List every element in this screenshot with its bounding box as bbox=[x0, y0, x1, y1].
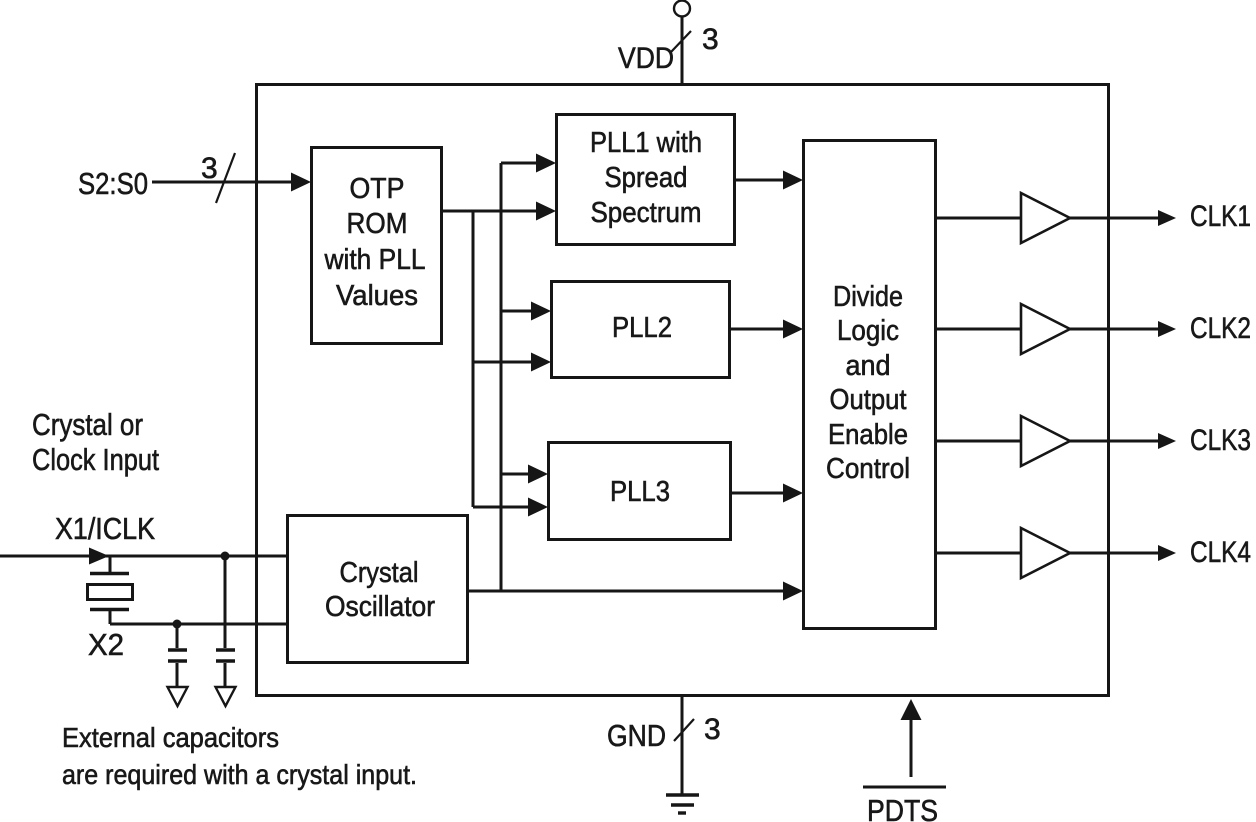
wire branch to PLL2 upper input bbox=[501, 310, 536, 313]
arrowhead PLL1 lower input bbox=[536, 202, 556, 221]
wire branch to PLL3 upper input bbox=[501, 473, 533, 476]
wire buffer 3 to CLK3 bbox=[1070, 440, 1160, 443]
buffer U4 (CLK4) bbox=[1021, 528, 1070, 578]
svg-text:X1/ICLK: X1/ICLK bbox=[55, 511, 155, 546]
arrowhead PLL2 lower input bbox=[531, 353, 551, 372]
block OTP ROM with PLL Values bbox=[312, 148, 442, 344]
svg-text:CLK2: CLK2 bbox=[1190, 312, 1251, 345]
arrowhead PLL3 lower input bbox=[528, 498, 548, 517]
arrowhead PLL1 to divide logic bbox=[783, 171, 803, 190]
arrowhead X1 bbox=[89, 548, 109, 565]
bus slash S2:S0 bbox=[216, 153, 235, 203]
node X1 junction bbox=[221, 552, 230, 561]
svg-text:CLK1: CLK1 bbox=[1190, 200, 1251, 233]
svg-text:3: 3 bbox=[704, 713, 721, 746]
block Crystal Oscillator bbox=[288, 516, 468, 663]
chip outline box bbox=[257, 85, 1109, 696]
block PLL2 bbox=[552, 282, 730, 378]
ground C2 (open arrow) bbox=[216, 687, 236, 706]
arrowhead into OTP bbox=[291, 173, 311, 192]
svg-text:External capacitors: External capacitors bbox=[62, 722, 279, 753]
wire PLL3 output bbox=[731, 492, 788, 495]
svg-text:PLL3: PLL3 bbox=[610, 476, 670, 508]
wire crystal oscillator output to divide logic bbox=[468, 590, 788, 593]
svg-text:PLL2: PLL2 bbox=[612, 312, 672, 344]
bus slash GND bbox=[674, 719, 694, 741]
buffer U2 (CLK2) bbox=[1021, 304, 1070, 354]
arrowhead PLL2 to divide logic bbox=[783, 320, 803, 339]
VDD terminal circle bbox=[674, 1, 690, 17]
bus slash VDD bbox=[671, 31, 691, 52]
arrowhead PLL2 upper input bbox=[531, 302, 551, 321]
wire branch to PLL3 lower input bbox=[473, 506, 533, 509]
wire vertical bus PLL values bbox=[472, 211, 475, 507]
svg-text:Clock Input: Clock Input bbox=[32, 442, 159, 477]
arrowhead CLK2 bbox=[1158, 321, 1176, 337]
arrowhead PLL3 upper input bbox=[528, 465, 548, 484]
wire PDTS bbox=[910, 716, 913, 777]
svg-text:ROM: ROM bbox=[347, 208, 408, 240]
block PLL1 with Spread Spectrum bbox=[557, 115, 735, 245]
svg-text:3: 3 bbox=[702, 23, 719, 56]
svg-text:OTP: OTP bbox=[350, 173, 405, 205]
svg-text:Crystal or: Crystal or bbox=[32, 407, 143, 442]
svg-text:Values: Values bbox=[336, 280, 418, 312]
wire buffer 4 to CLK4 bbox=[1070, 552, 1160, 555]
svg-text:Crystal: Crystal bbox=[340, 557, 419, 589]
svg-text:PDTS: PDTS bbox=[867, 793, 938, 822]
svg-text:Spectrum: Spectrum bbox=[591, 197, 702, 229]
arrowhead CLK3 bbox=[1158, 433, 1176, 449]
svg-text:with PLL: with PLL bbox=[324, 244, 426, 276]
arrowhead oscillator to divide logic bbox=[783, 582, 803, 601]
svg-text:CLK3: CLK3 bbox=[1190, 424, 1251, 457]
svg-text:Enable: Enable bbox=[828, 419, 908, 451]
wire PLL1 output bbox=[735, 179, 788, 182]
overline PDTS bbox=[863, 786, 946, 789]
block Divide Logic and Output Enable Control bbox=[804, 141, 936, 629]
arrowhead CLK1 bbox=[1158, 210, 1176, 226]
arrowhead PLL3 to divide logic bbox=[783, 484, 803, 503]
ground C1 (open arrow) bbox=[168, 687, 188, 706]
arrowhead PDTS into chip bbox=[901, 699, 922, 720]
wire X1 input bbox=[0, 555, 287, 558]
capacitor C1 bbox=[176, 624, 179, 648]
wire buffer 2 to CLK2 bbox=[1070, 328, 1160, 331]
buffer U1 (CLK1) bbox=[1021, 193, 1070, 243]
svg-text:X2: X2 bbox=[88, 627, 124, 662]
wire buffer 1 to CLK1 bbox=[1070, 217, 1160, 220]
svg-text:Logic: Logic bbox=[837, 315, 899, 347]
wire X2 bbox=[110, 623, 287, 626]
capacitor C2 bbox=[224, 556, 227, 648]
svg-text:Control: Control bbox=[826, 453, 910, 485]
svg-text:Oscillator: Oscillator bbox=[325, 591, 435, 623]
svg-text:3: 3 bbox=[201, 152, 218, 185]
wire PLL2 output bbox=[730, 328, 788, 331]
crystal Y1 bbox=[109, 556, 112, 572]
wire branch to PLL2 lower input bbox=[473, 361, 536, 364]
svg-text:Spread: Spread bbox=[605, 162, 688, 194]
wire vertical bus reference clock bbox=[500, 163, 503, 591]
svg-text:are required with a crystal in: are required with a crystal input. bbox=[62, 759, 417, 790]
wire divide logic to buffer 1 bbox=[936, 217, 1021, 220]
arrowhead PLL1 upper input bbox=[536, 154, 556, 173]
wire divide logic to buffer 3 bbox=[936, 440, 1021, 443]
wire OTP output to PLL1 lower input bbox=[442, 210, 541, 213]
wire GND bbox=[681, 696, 684, 794]
wire S2:S0 input bbox=[152, 181, 295, 184]
block PLL3 bbox=[549, 443, 731, 540]
svg-text:CLK4: CLK4 bbox=[1190, 536, 1251, 569]
node X2 junction bbox=[173, 620, 182, 629]
svg-text:Divide: Divide bbox=[833, 281, 903, 313]
svg-text:S2:S0: S2:S0 bbox=[78, 166, 148, 201]
ground symbol bbox=[666, 793, 699, 796]
wire branch to PLL1 upper input bbox=[501, 162, 541, 165]
arrowhead CLK4 bbox=[1158, 545, 1176, 561]
buffer U3 (CLK3) bbox=[1021, 416, 1070, 466]
svg-text:and: and bbox=[846, 350, 891, 382]
wire divide logic to buffer 4 bbox=[936, 552, 1021, 555]
svg-text:VDD: VDD bbox=[618, 42, 674, 75]
svg-text:GND: GND bbox=[607, 718, 666, 753]
wire divide logic to buffer 2 bbox=[936, 328, 1021, 331]
wire VDD to chip bbox=[681, 17, 684, 84]
svg-text:Output: Output bbox=[830, 384, 907, 416]
svg-text:PLL1 with: PLL1 with bbox=[590, 127, 702, 159]
